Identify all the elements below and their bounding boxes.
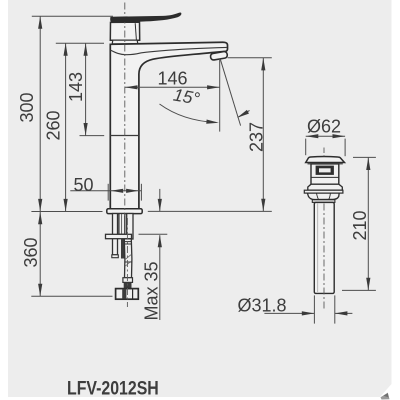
dia62 dimension line — [306, 135, 345, 137]
svg-text:LFV-2012SH: LFV-2012SH — [67, 377, 159, 399]
faucet centerline (above counter) — [124, 3, 126, 217]
spout tip vertical reference line — [219, 59, 221, 132]
dia31.8 dimension line right part — [335, 312, 353, 314]
drain wide flange — [304, 190, 343, 193]
extension line 360 bottom — [31, 295, 112, 297]
drain centerline upper — [323, 148, 325, 157]
counter line right segment — [148, 210, 272, 212]
dark stripe below bracket — [121, 239, 125, 259]
arrow 210 top — [366, 158, 370, 171]
drain cap — [306, 156, 345, 162]
arrow 50 right — [126, 189, 139, 193]
drain shoulder — [308, 184, 343, 190]
arrow Max35 top — [158, 199, 162, 212]
dimension line 143 — [85, 43, 87, 135]
arrow 50 left — [111, 189, 124, 193]
arrow 260 top — [64, 43, 68, 56]
drain body mid line — [311, 176, 339, 178]
nut facet dark — [122, 289, 126, 299]
svg-text:50: 50 — [73, 175, 93, 195]
counter line left segment — [31, 211, 102, 213]
dimension line 260 — [65, 43, 67, 211]
svg-text:Max 35: Max 35 — [142, 261, 162, 320]
arrow 237 bottom — [261, 199, 265, 212]
spout front S-curve line — [111, 47, 227, 54]
nut facet line — [132, 289, 134, 299]
svg-text:260: 260 — [44, 110, 64, 140]
svg-text:Ø31.8: Ø31.8 — [237, 296, 286, 316]
nut scallop line 2 — [329, 193, 331, 199]
svg-text:300: 300 — [17, 92, 37, 122]
drain centerline lower — [323, 204, 325, 310]
210 top extension line — [353, 156, 376, 158]
extension line top (handle top, 300) — [32, 15, 113, 17]
Max35 upper dimension tail — [159, 189, 161, 211]
hose band 1 — [124, 241, 131, 243]
nut scallop line 1 — [317, 193, 319, 199]
arrow dia62 left — [306, 134, 319, 138]
Max35 bottom extension line — [139, 233, 168, 235]
arrow Max35 bottom — [158, 235, 162, 248]
faucet handle lever — [110, 13, 181, 23]
drain overflow slot — [319, 168, 331, 173]
svg-text:237: 237 — [247, 122, 267, 152]
svg-text:360: 360 — [21, 237, 41, 267]
237 dimension line — [262, 58, 264, 212]
arrow 146 right — [207, 85, 220, 89]
body joint line — [110, 135, 139, 137]
50 extension line right — [140, 184, 142, 201]
supply rod left — [106, 214, 134, 258]
146 dimension line — [125, 86, 220, 88]
15 degree arc left — [160, 104, 217, 123]
hose upper — [127, 214, 133, 240]
hose band 2 — [124, 243, 131, 245]
dimension line 360 — [39, 212, 41, 297]
arrow dia31.8 left pointing right — [302, 311, 315, 315]
arrow 143 top — [84, 43, 88, 56]
hose collar — [123, 278, 133, 283]
dia31.8 dimension line left part — [264, 312, 314, 314]
faucet handle neck — [112, 40, 138, 44]
flexible hose — [124, 239, 132, 278]
arrow 300 top — [38, 16, 42, 29]
hose hex nut — [116, 289, 139, 300]
arrow 260 bottom — [64, 199, 68, 212]
210 dimension line — [367, 157, 369, 290]
arrow 146 left — [125, 85, 138, 89]
arrow dia31.8 right pointing left — [335, 311, 348, 315]
Max35 lower dimension tail — [159, 235, 161, 320]
base flange — [107, 209, 142, 214]
dia31.8 extension line right — [334, 295, 336, 323]
dia62 extension line left — [305, 139, 307, 156]
dimension line 300 — [39, 16, 41, 211]
50 dimension line — [70, 190, 141, 192]
drain tailpipe — [314, 202, 334, 293]
arrow 360 bottom — [38, 284, 42, 297]
arrow 360 top — [38, 212, 42, 225]
supply pipe middle — [119, 214, 125, 235]
faucet centerline (below counter) — [126, 218, 128, 307]
hose band 3 — [125, 261, 132, 263]
15 degree slant stream line — [220, 59, 240, 125]
dia62 extension line right — [344, 139, 346, 157]
arrow 300 bottom — [38, 199, 42, 212]
svg-text:Ø62: Ø62 — [307, 116, 341, 136]
210 bottom extension line — [342, 289, 376, 291]
arrow dia62 right — [333, 134, 346, 138]
drain washer — [312, 200, 335, 203]
arrow 237 top — [261, 58, 265, 71]
50 extension line left — [107, 184, 109, 201]
drain body — [311, 164, 339, 184]
extension line 143 bottom — [80, 135, 105, 137]
arrow 143 bottom — [84, 123, 88, 136]
hose threaded end — [124, 282, 132, 288]
237 top extension line — [228, 57, 272, 59]
dia31.8 extension line left — [313, 295, 315, 323]
arrow 15deg arc end — [206, 120, 219, 125]
tailpipe inner highlight line — [317, 204, 319, 293]
drain scalloped nut — [307, 193, 339, 199]
drain overflow window — [316, 166, 334, 175]
mounting bracket — [106, 234, 132, 238]
rod foot — [112, 255, 119, 258]
arrow 15deg slant side — [236, 110, 249, 120]
arrow 210 bottom — [366, 278, 370, 291]
faucet body and spout outline — [110, 42, 227, 209]
svg-text:210: 210 — [350, 210, 370, 240]
spout aerator nozzle — [210, 51, 228, 60]
extension line body top (260/143) — [56, 42, 104, 44]
hose hatch mark — [125, 255, 131, 266]
faucet handle base — [110, 22, 139, 44]
svg-text:143: 143 — [66, 72, 86, 102]
drain cap underside line — [308, 163, 343, 165]
folded corner mark bottom-right — [380, 384, 392, 397]
15 degree arc right tail — [239, 110, 250, 117]
